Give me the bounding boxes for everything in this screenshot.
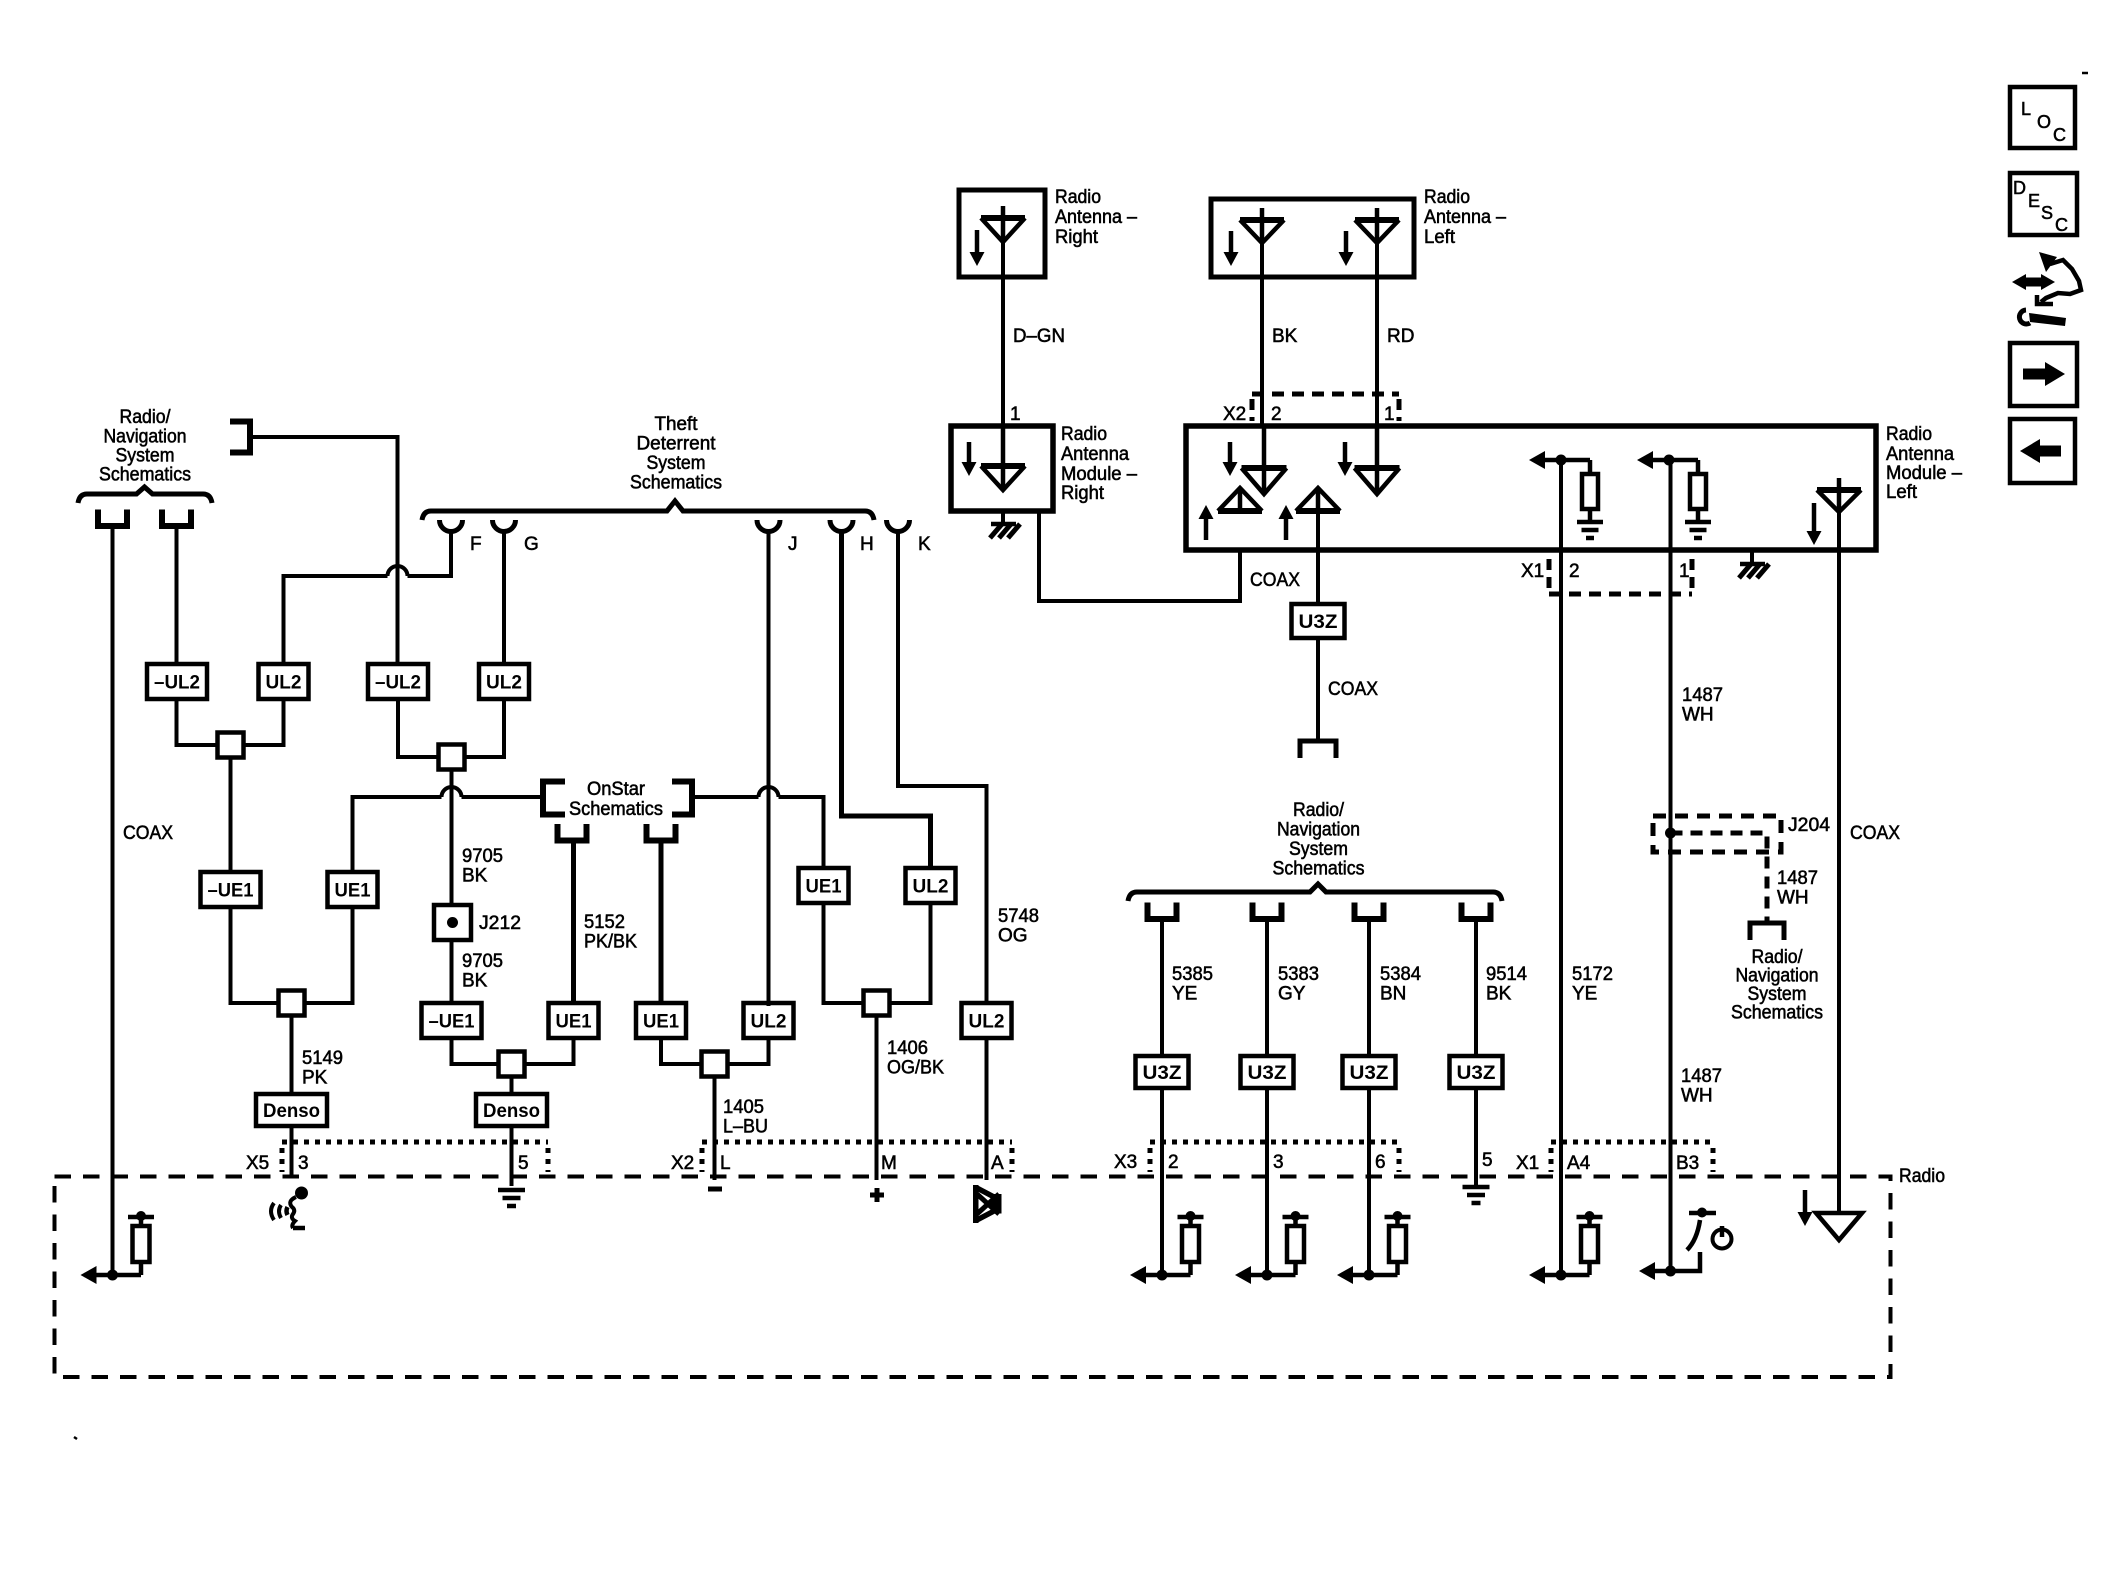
svg-text:UE1: UE1: [556, 1012, 592, 1033]
svg-text:Left: Left: [1886, 482, 1918, 503]
svg-text:M: M: [881, 1153, 897, 1174]
svg-text:Denso: Denso: [483, 1101, 540, 1122]
plus symbol under pin M: [870, 1188, 884, 1202]
splice J212: [434, 905, 471, 940]
antenna symbol right (module left): [1817, 487, 1861, 493]
tiny printing artifact top right: [2082, 72, 2088, 75]
wire COAX module left antenna to radio: [1837, 512, 1841, 1213]
svg-text:System: System: [1289, 839, 1348, 860]
svg-text:BN: BN: [1380, 984, 1406, 1005]
wire connector K down and right to UL2 #5 - circuit 5748 OG: [898, 531, 987, 1006]
svg-text:Schematics: Schematics: [630, 473, 722, 494]
wire OnStar-left: from UE1 #1 up and right to OnStar bracket, hop over 9705 wire: [353, 797, 442, 874]
down arrow 2 in module left: [1343, 442, 1348, 464]
svg-text:F: F: [470, 534, 482, 555]
wire 5383 GY to U3Z 2: [1265, 921, 1269, 1058]
down arrow in Radio Antenna Right box: [975, 230, 980, 254]
svg-text:X5: X5: [246, 1153, 269, 1174]
svg-text:Radio: Radio: [1899, 1166, 1945, 1187]
svg-text:5149: 5149: [302, 1048, 343, 1069]
svg-text:PK/BK: PK/BK: [584, 932, 637, 953]
junction splice C: [279, 991, 305, 1016]
down arrow in module right: [967, 442, 972, 464]
svg-text:Radio: Radio: [1061, 424, 1107, 445]
svg-text:UL2: UL2: [751, 1012, 787, 1033]
wire UL2 #4 to junction F: [888, 903, 931, 1003]
svg-text:3: 3: [1273, 1152, 1284, 1173]
wire J212 to -UE1 #2: [450, 940, 454, 1005]
sidebar shortcut glyph (arrows and wrench): [2012, 252, 2081, 326]
wire UE1 #3 to junction E: [661, 1038, 704, 1064]
svg-text:Schematics: Schematics: [99, 465, 191, 486]
wire OnStar-right: from bracket right to UE1 #4, hop over J wire: [692, 795, 759, 799]
svg-text:Module –: Module –: [1061, 464, 1137, 485]
terminator with resistor (radio pin 2): [1130, 1211, 1204, 1284]
svg-text:UL2: UL2: [913, 877, 949, 898]
page bracket (top middle-left): [230, 422, 250, 453]
svg-text:Antenna –: Antenna –: [1424, 207, 1506, 228]
coax stub wire below U3Z: [1316, 638, 1320, 742]
svg-text:PK: PK: [302, 1068, 328, 1089]
power icon next to switch: [1713, 1226, 1732, 1249]
svg-text:5152: 5152: [584, 912, 625, 933]
wire U3Z 3 to radio pin 6 (X3): [1367, 1088, 1371, 1275]
svg-text:Left: Left: [1424, 227, 1456, 248]
svg-text:Radio: Radio: [1886, 424, 1932, 445]
svg-text:5: 5: [518, 1153, 529, 1174]
junction splice A: [218, 733, 244, 758]
coax wire module right to module left input: [1039, 511, 1240, 601]
svg-text:YE: YE: [1572, 984, 1597, 1005]
connector X1 dashed outline (module left bottom): [1549, 559, 1692, 594]
svg-text:WH: WH: [1777, 888, 1809, 909]
wire Denso 2 to radio pin 5 ground: [510, 1126, 514, 1186]
net label OnStar Schematics: [569, 779, 663, 820]
antenna symbol down 2 in module left: [1355, 465, 1400, 471]
component box -UE1 #2: [422, 1003, 482, 1038]
label Radio Antenna - Right: [1055, 187, 1137, 248]
terminator with resistor (radio pin A4): [1529, 1211, 1603, 1284]
chassis ground below module left: [1750, 550, 1754, 563]
svg-text:Right: Right: [1055, 227, 1099, 248]
wire hop over vertical at (768.5,797): [759, 787, 779, 797]
svg-text:COAX: COAX: [1850, 823, 1900, 844]
wire junction F to radio pin M - circuit 1406 OG/BK: [875, 1015, 879, 1180]
sidebar icon box LOC: [2010, 87, 2075, 148]
sidebar icon box right arrow: [2010, 343, 2077, 406]
wire OnStar connector 1 down to UE1 #2 - circuit 5152 PK/BK: [571, 843, 576, 1006]
splice J204 dashed outline: [1653, 816, 1781, 852]
svg-text:U3Z: U3Z: [1248, 1063, 1287, 1084]
internal resistor to ground 2 (module left): [1637, 451, 1711, 538]
svg-text:Schematics: Schematics: [569, 799, 663, 820]
svg-text:Schematics: Schematics: [1731, 1003, 1823, 1024]
power switch (radio pin B3): [1639, 1180, 1716, 1280]
svg-text:1406: 1406: [887, 1038, 928, 1059]
svg-text:C: C: [2055, 215, 2068, 235]
component box Radio Antenna Module - Left: [1186, 426, 1876, 550]
component box UL2 #5: [962, 1003, 1012, 1038]
splice block U3Z 2: [1241, 1056, 1294, 1088]
svg-text:X2: X2: [671, 1153, 694, 1174]
wire junction D to Denso connector 2: [510, 1076, 514, 1095]
svg-text:O: O: [2037, 112, 2051, 132]
antenna symbol 2 in Radio Antenna Left box: [1355, 217, 1399, 223]
svg-text:A: A: [991, 1153, 1004, 1174]
splice block U3Z 1: [1136, 1056, 1189, 1088]
resistance box -UL2 #2: [368, 664, 428, 699]
svg-text:Denso: Denso: [263, 1101, 320, 1122]
wire UL2 #5 to radio pin A: [985, 1038, 989, 1180]
svg-text:COAX: COAX: [1328, 679, 1378, 700]
down arrow 2 in Radio Antenna Left box: [1344, 231, 1349, 254]
svg-text:1487: 1487: [1682, 685, 1723, 706]
resistance box -UL2 #1: [147, 664, 207, 699]
svg-text:OG/BK: OG/BK: [887, 1058, 944, 1079]
wire junction A down to -UE1 #1: [229, 757, 233, 874]
connector half-box nav 2 (5383): [1253, 903, 1282, 920]
svg-text:6: 6: [1375, 1152, 1386, 1173]
wire from connector F down, hop, to UL2 #1: [408, 531, 452, 576]
wire -UL2 #2 to junction B: [398, 699, 441, 757]
svg-text:J: J: [788, 534, 798, 555]
svg-text:U3Z: U3Z: [1350, 1063, 1389, 1084]
wire UE1 #1 to junction C: [302, 907, 353, 1003]
wire connector H down and right to UL2 #4: [842, 531, 931, 870]
connector H half-circle: [830, 520, 853, 532]
page bracket right of OnStar label: [672, 782, 692, 815]
svg-text:Navigation: Navigation: [104, 427, 187, 448]
wire hop over vertical at (451.5,797): [442, 787, 462, 797]
connector X5 dotted outline: [282, 1142, 548, 1172]
svg-text:E: E: [2028, 191, 2040, 211]
component box Radio Antenna - Left: [1211, 199, 1414, 277]
svg-text:S: S: [2041, 203, 2053, 223]
connector half-box to nav schematics 2: [162, 510, 191, 527]
component box -UE1 #1: [201, 872, 261, 907]
net label Theft Deterrent System Schematics: [630, 414, 722, 494]
svg-text:L: L: [2021, 99, 2031, 119]
svg-text:Schematics: Schematics: [1273, 859, 1365, 880]
svg-text:Antenna –: Antenna –: [1055, 207, 1137, 228]
wire hop over vertical at (397.5,576): [388, 566, 408, 576]
svg-text:Radio: Radio: [1424, 187, 1470, 208]
svg-text:–UL2: –UL2: [154, 673, 200, 694]
wire COAX from nav connector 1 down to radio: [111, 528, 115, 1275]
wire connector J down to UL2 #3 (OnStar wire hops over it): [767, 531, 771, 1006]
antenna symbol up 2 in module left: [1296, 508, 1340, 514]
svg-text:Radio/: Radio/: [120, 407, 172, 428]
up arrow 2 in module left: [1284, 517, 1289, 540]
wire from nav connector 2 to -UL2: [175, 528, 179, 666]
wire UL2 #3 to junction E: [725, 1038, 769, 1064]
svg-text:1: 1: [1384, 404, 1395, 425]
antenna symbol down 1 in module left: [1242, 465, 1287, 471]
svg-text:J212: J212: [479, 913, 521, 934]
svg-text:9514: 9514: [1486, 964, 1527, 985]
wire D-GN antenna right to module right pin 1: [1001, 242, 1005, 428]
svg-text:9705: 9705: [462, 951, 503, 972]
svg-text:D: D: [2013, 178, 2026, 198]
connector bracket to nav schematics (J204 branch): [1750, 923, 1784, 940]
svg-text:5383: 5383: [1278, 964, 1319, 985]
connector box Denso 1: [256, 1094, 327, 1126]
connector box Denso 2: [476, 1094, 547, 1126]
wire junction B down to splice J212 (crosses OnStar wire): [450, 769, 454, 905]
svg-text:2: 2: [1271, 404, 1282, 425]
wire 9514 BK to U3Z 4: [1474, 921, 1478, 1058]
svg-text:COAX: COAX: [1250, 570, 1300, 591]
svg-text:RD: RD: [1387, 326, 1414, 347]
wire UL2 #1 to junction A: [242, 699, 284, 745]
wire U3Z 1 to radio pin 2 (X3): [1160, 1088, 1164, 1275]
junction splice F: [864, 991, 890, 1016]
svg-text:OnStar: OnStar: [587, 779, 646, 800]
wire -UE1 #1 to junction C: [231, 907, 283, 1003]
net label Radio/Navigation System Schematics (J204 branch): [1731, 947, 1823, 1024]
terminator with resistor (radio pin 3 X3): [1235, 1211, 1309, 1284]
minus symbol under pin L: [708, 1187, 722, 1192]
junction dot in J204: [1665, 828, 1676, 839]
svg-text:1487: 1487: [1777, 868, 1818, 889]
brace for Radio/Navigation System Schematics (top left): [78, 487, 212, 503]
svg-text:Antenna: Antenna: [1061, 444, 1129, 465]
connector J half-circle: [757, 520, 780, 532]
svg-text:L: L: [720, 1153, 731, 1174]
svg-text:–UE1: –UE1: [208, 881, 254, 902]
wire -UE1 #2 to junction D: [452, 1038, 502, 1064]
net label Radio/Navigation System Schematics (middle): [1273, 800, 1365, 880]
svg-text:GY: GY: [1278, 984, 1306, 1005]
wire BK antenna left 1 to module left: [1260, 243, 1264, 491]
wire UE1 #2 to junction D: [522, 1038, 574, 1064]
svg-text:G: G: [524, 534, 539, 555]
label Radio Antenna Module - Right: [1061, 424, 1137, 504]
junction splice D: [499, 1052, 525, 1077]
resistance box UL2 #2: [479, 664, 529, 699]
chassis ground below module right: [1001, 511, 1005, 523]
connector K half-circle: [887, 520, 910, 532]
ground under radio pin 5 (right): [1463, 1187, 1490, 1203]
svg-text:A4: A4: [1567, 1153, 1591, 1174]
antenna symbol (receive) in module right: [981, 463, 1025, 469]
svg-text:2: 2: [1168, 1152, 1179, 1173]
down arrow right (module left): [1812, 503, 1817, 533]
svg-text:H: H: [860, 534, 874, 555]
wire 5384 BN to U3Z 3: [1367, 921, 1371, 1058]
page bracket left of OnStar label: [543, 782, 565, 815]
down arrow at radio coax input: [1803, 1190, 1808, 1214]
sidebar icon box left arrow: [2010, 419, 2075, 483]
svg-text:J204: J204: [1788, 815, 1830, 836]
svg-text:U3Z: U3Z: [1143, 1063, 1182, 1084]
antenna symbol up 1 in module left: [1218, 508, 1262, 514]
splice block U3Z 4: [1450, 1056, 1503, 1088]
component box UE1 #4: [799, 868, 849, 903]
connector half-box nav 4 (9514): [1462, 903, 1491, 920]
sidebar icon box DESC: [2010, 173, 2077, 235]
ground under radio pin 5 (X5): [498, 1190, 525, 1206]
svg-text:BK: BK: [462, 866, 488, 887]
svg-text:BK: BK: [1272, 326, 1298, 347]
antenna symbol in Radio Antenna Right box: [981, 215, 1025, 221]
svg-text:Theft: Theft: [655, 414, 699, 435]
svg-text:Right: Right: [1061, 483, 1105, 504]
wire 1487 WH from module left through J204 to radio pin B3: [1669, 460, 1673, 1180]
brace for Radio/Navigation System Schematics (middle): [1128, 884, 1502, 901]
connector bracket at coax stub end: [1300, 741, 1336, 758]
coax terminator with resistor (radio left): [81, 1211, 155, 1284]
svg-text:1487: 1487: [1681, 1066, 1722, 1087]
svg-text:5385: 5385: [1172, 964, 1213, 985]
label Radio Antenna Module - Left: [1886, 424, 1962, 503]
connector X2 dashed outline (module left top): [1252, 394, 1399, 421]
svg-text:WH: WH: [1681, 1086, 1713, 1107]
svg-text:System: System: [647, 453, 706, 474]
svg-text:BK: BK: [462, 971, 488, 992]
svg-text:1405: 1405: [723, 1097, 764, 1118]
wire from connector G down to UL2 #2: [502, 531, 506, 666]
internal resistor to ground 1 (module left): [1529, 451, 1603, 538]
svg-text:UE1: UE1: [806, 877, 842, 898]
microphone icon (radio pin 3): [271, 1187, 308, 1229]
svg-text:UL2: UL2: [266, 673, 302, 694]
svg-text:Radio: Radio: [1055, 187, 1101, 208]
component box UE1 #3: [636, 1003, 686, 1038]
wire 5385 YE to U3Z 1: [1160, 921, 1164, 1058]
wire from module-left up-antenna 2 to splice block U3Z: [1316, 511, 1320, 606]
connector half-box nav 1 (5385): [1148, 903, 1177, 920]
svg-text:UL2: UL2: [969, 1012, 1005, 1033]
connector X3 dotted outline: [1150, 1142, 1399, 1172]
svg-text:Radio/: Radio/: [1293, 800, 1345, 821]
svg-text:Module –: Module –: [1886, 463, 1962, 484]
svg-text:5748: 5748: [998, 906, 1039, 927]
svg-text:–UL2: –UL2: [375, 673, 421, 694]
svg-text:WH: WH: [1682, 705, 1714, 726]
svg-text:5: 5: [1482, 1150, 1493, 1171]
down arrow 1 in module left: [1228, 442, 1233, 464]
svg-text:UE1: UE1: [335, 881, 371, 902]
svg-text:UL2: UL2: [486, 673, 522, 694]
svg-text:UE1: UE1: [643, 1012, 679, 1033]
component box UL2 #3: [744, 1003, 794, 1038]
wire RD antenna left 2 to module left: [1375, 243, 1379, 491]
net label Radio/Navigation System Schematics (top left): [99, 407, 191, 486]
svg-text:D–GN: D–GN: [1013, 326, 1065, 347]
svg-text:–UE1: –UE1: [429, 1012, 475, 1033]
svg-text:U3Z: U3Z: [1457, 1063, 1496, 1084]
splice block U3Z (coax): [1292, 604, 1345, 638]
wire 5172 YE from module left to radio pin A4: [1559, 460, 1563, 1275]
svg-text:B3: B3: [1676, 1153, 1699, 1174]
wire junction C to Denso connector 1 - circuit 5149 PK: [290, 1015, 294, 1095]
down arrow 1 in Radio Antenna Left box: [1229, 231, 1234, 254]
connector X1 dotted outline (radio): [1551, 1142, 1713, 1172]
svg-text:System: System: [116, 446, 175, 467]
label Radio Antenna - Left: [1424, 187, 1506, 248]
component box UL2 #4: [906, 868, 956, 903]
svg-text:K: K: [918, 534, 931, 555]
connector half-box OnStar 1: [558, 824, 587, 841]
connector G half-circle: [493, 520, 516, 532]
svg-text:Antenna: Antenna: [1886, 444, 1954, 465]
svg-text:Navigation: Navigation: [1277, 820, 1360, 841]
wire junction E to radio pin L - circuit 1405 L-BU: [713, 1076, 717, 1180]
svg-text:C: C: [2053, 125, 2066, 145]
svg-text:Deterrent: Deterrent: [637, 434, 717, 455]
coax receive antenna symbol (radio right): [1816, 1213, 1862, 1240]
svg-text:3: 3: [298, 1153, 309, 1174]
svg-text:X1: X1: [1516, 1153, 1539, 1174]
wire UL2 #2 to junction B: [463, 699, 504, 757]
connector half-box nav 3 (5384): [1355, 903, 1384, 920]
svg-text:COAX: COAX: [123, 823, 173, 844]
svg-text:L–BU: L–BU: [723, 1117, 768, 1138]
terminator with resistor (radio pin 6): [1337, 1211, 1411, 1284]
svg-text:U3Z: U3Z: [1299, 612, 1338, 633]
svg-text:BK: BK: [1486, 984, 1512, 1005]
wire OnStar connector 2 down to UE1 #3: [659, 843, 664, 1006]
component box UE1 #1: [328, 872, 378, 907]
svg-text:OG: OG: [998, 926, 1028, 947]
antenna symbol 1 in Radio Antenna Left box: [1240, 217, 1284, 223]
svg-text:5384: 5384: [1380, 964, 1421, 985]
wire from page bracket to -UL2 #2: [250, 437, 398, 666]
junction splice E: [702, 1052, 728, 1077]
dashed branch wire from J204: [1671, 833, 1768, 921]
brace for Theft Deterrent System Schematics: [422, 501, 874, 520]
tiny printing artifact bottom left: [74, 1437, 77, 1439]
connector half-box to nav schematics 1: [98, 510, 127, 527]
svg-text:9705: 9705: [462, 846, 503, 867]
Radio dashed box outline: [55, 1177, 1891, 1378]
wire Denso 1 to radio pin 3 (X5): [290, 1126, 294, 1178]
resistance box UL2 #1: [259, 664, 309, 699]
connector X2 dotted outline (radio): [702, 1142, 1012, 1172]
connector F half-circle: [440, 520, 463, 532]
component box UE1 #2: [549, 1003, 599, 1038]
svg-text:1: 1: [1010, 404, 1021, 425]
svg-text:1: 1: [1679, 561, 1690, 582]
component box Radio Antenna - Right: [959, 190, 1045, 277]
component box Radio Antenna Module - Right: [951, 426, 1053, 511]
svg-text:X3: X3: [1114, 1152, 1137, 1173]
svg-text:X1: X1: [1521, 561, 1544, 582]
svg-text:YE: YE: [1172, 984, 1197, 1005]
wire UE1 #4 to junction F: [824, 903, 867, 1003]
wire U3Z 4 to radio pin 5 ground (X1 row): [1474, 1088, 1478, 1185]
connector half-box OnStar 2: [647, 824, 676, 841]
svg-text:5172: 5172: [1572, 964, 1613, 985]
wire U3Z 2 to radio pin 3 (X3): [1265, 1088, 1269, 1275]
up arrow 1 in module left: [1204, 517, 1209, 540]
junction splice B: [439, 745, 465, 770]
wire -UL2 #1 to junction A: [177, 699, 221, 745]
muted speaker icon (radio pin A): [973, 1185, 1002, 1223]
svg-text:2: 2: [1569, 561, 1580, 582]
svg-text:X2: X2: [1223, 404, 1246, 425]
splice block U3Z 3: [1343, 1056, 1396, 1088]
